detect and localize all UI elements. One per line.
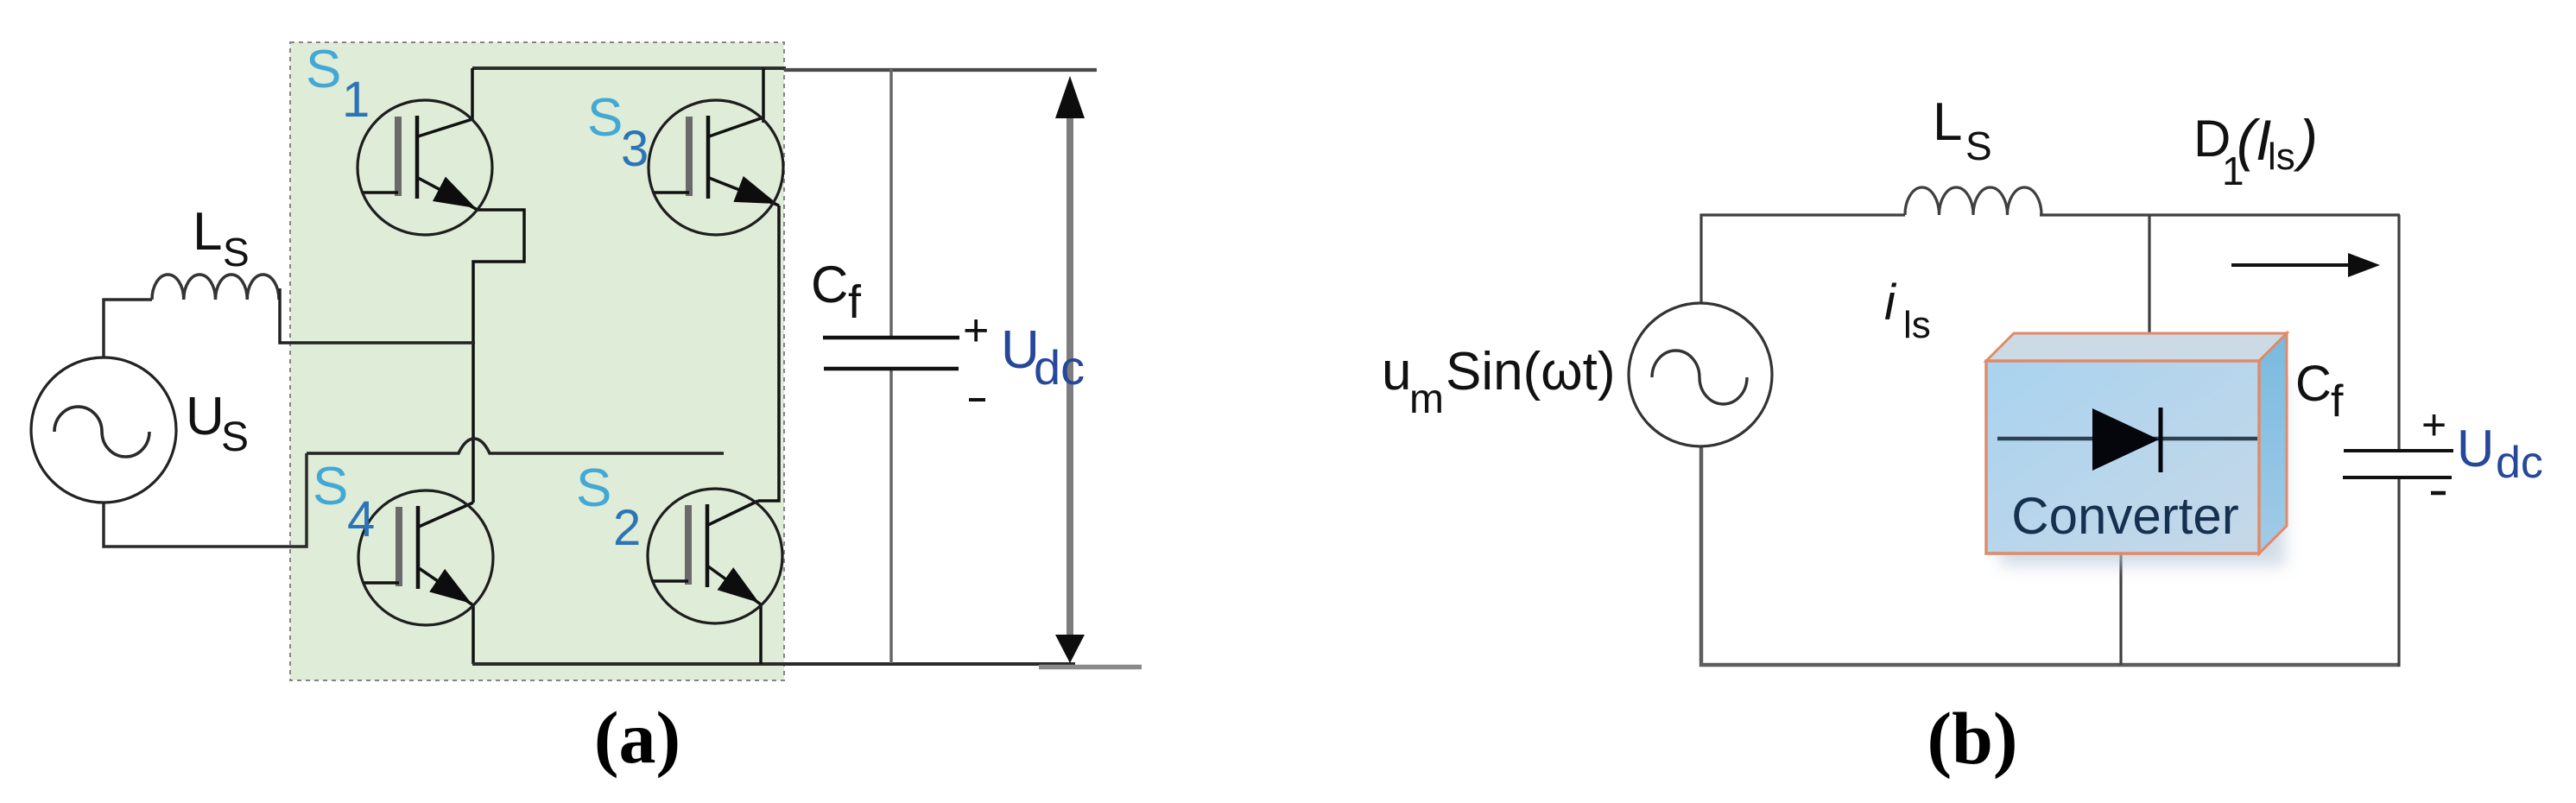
svg-text:(a): (a): [594, 696, 680, 779]
svg-text:f: f: [848, 276, 862, 328]
svg-text:dc: dc: [2496, 438, 2543, 488]
svg-text:m: m: [1409, 376, 1444, 422]
svg-text:ls: ls: [1903, 304, 1931, 346]
svg-text:(I: (I: [2237, 108, 2271, 172]
svg-text:1: 1: [342, 72, 370, 128]
svg-text:dc: dc: [1034, 340, 1085, 395]
svg-text:C: C: [811, 256, 848, 313]
svg-text:L: L: [193, 202, 222, 262]
svg-text:+: +: [2421, 401, 2446, 449]
svg-text:i: i: [1884, 275, 1897, 331]
svg-text:(b): (b): [1927, 697, 2017, 780]
svg-text:f: f: [2331, 376, 2344, 427]
svg-text:S: S: [576, 458, 611, 518]
svg-text:Converter: Converter: [2011, 487, 2238, 545]
svg-text:S: S: [221, 414, 249, 460]
svg-text:U: U: [2457, 420, 2494, 477]
svg-text:S: S: [223, 230, 250, 275]
svg-text:3: 3: [621, 121, 649, 177]
svg-text:U: U: [186, 387, 225, 446]
svg-text:L: L: [1933, 92, 1962, 152]
svg-text:2: 2: [613, 500, 641, 556]
svg-text:S: S: [313, 457, 348, 516]
svg-text:u: u: [1382, 342, 1411, 401]
svg-text:S: S: [306, 40, 341, 99]
svg-text:+: +: [963, 306, 989, 356]
svg-text:4: 4: [347, 491, 375, 547]
svg-text:S: S: [587, 88, 623, 148]
svg-text:C: C: [2295, 356, 2332, 412]
svg-text:ls: ls: [2268, 136, 2295, 178]
svg-text:S: S: [1965, 123, 1992, 168]
svg-text:Sin(ωt): Sin(ωt): [1446, 342, 1616, 401]
